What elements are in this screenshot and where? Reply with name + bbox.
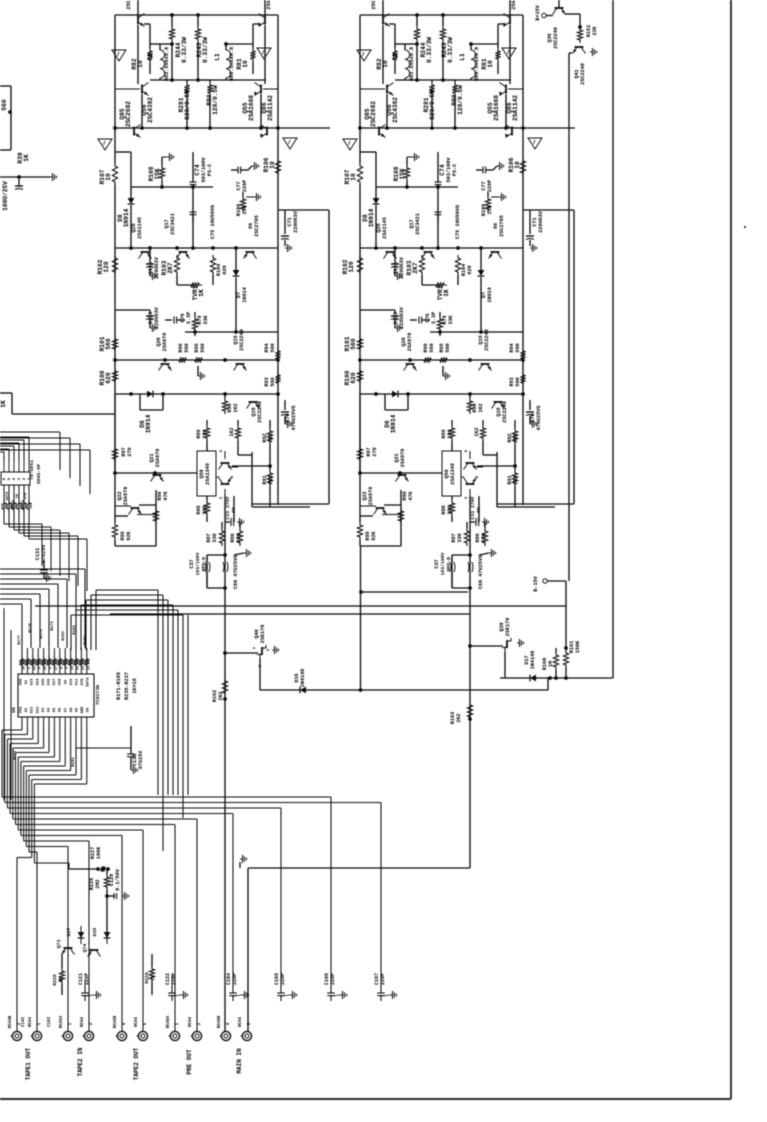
- svg-text:13: 13: [82, 666, 86, 670]
- resistor R161 150K: [564, 646, 568, 650]
- svg-text:C166: C166: [324, 973, 330, 985]
- connector pin leads top: [3, 461, 5, 472]
- input line right channel: [469, 496, 471, 868]
- connector TO-5051-6P: [1, 472, 30, 485]
- svg-text:220P: 220P: [232, 973, 238, 985]
- resistor R228 1K: [61, 954, 63, 968]
- wire supply branch: [361, 591, 468, 593]
- svg-text:R163: R163: [450, 712, 456, 724]
- bus vertical extensions: [162, 795, 164, 851]
- svg-text:B+15V: B+15V: [535, 4, 541, 20]
- svg-text:B-15V: B-15V: [533, 575, 539, 591]
- jack RCA6A: [170, 1031, 179, 1040]
- svg-text:14: 14: [87, 666, 91, 670]
- svg-text:1K: 1K: [150, 975, 156, 981]
- svg-text:R152: R152: [586, 25, 592, 37]
- svg-text:R228: R228: [52, 974, 58, 986]
- svg-text:RCA5A: RCA5A: [60, 1015, 64, 1028]
- svg-text:RCA6B: RCA6B: [218, 1015, 222, 1028]
- svg-text:220P: 220P: [280, 973, 286, 985]
- svg-text:RCA4: RCA4: [81, 1016, 85, 1027]
- page border bottom edge: [0, 1098, 731, 1100]
- resistor R162 2K2: [223, 697, 227, 701]
- jack RCA4: [32, 1031, 41, 1040]
- JFET Q40 2SK170: [223, 651, 227, 655]
- svg-text:D16: D16: [294, 673, 300, 682]
- terminal B+15V: [542, 13, 546, 17]
- right channel amplifier Q84 Q57 Q58 Q87 Q29 Q35 Q32 Q31 Q30 Q33 Q34 Q49 duplicate of left: [342, 0, 575, 590]
- jack RCA5B: [117, 1031, 126, 1040]
- svg-text:2K2: 2K2: [456, 713, 462, 722]
- svg-text:Q36: Q36: [547, 33, 553, 42]
- transistor Q41 2SC2240: [573, 47, 586, 54]
- resistor network R171-R185 above IC: [19, 656, 24, 668]
- svg-text:TAPE2 OUT: TAPE2 OUT: [133, 1047, 140, 1080]
- svg-text:DATA: DATA: [87, 677, 91, 687]
- resistor R229 1K: [151, 954, 153, 966]
- wire stub lower: [0, 392, 12, 394]
- svg-text:100K: 100K: [96, 846, 102, 859]
- svg-text:S22: S22: [36, 706, 40, 714]
- svg-text:2SC2240: 2SC2240: [580, 63, 586, 85]
- wire: [80, 926, 82, 932]
- svg-text:TC9273N: TC9273N: [95, 685, 101, 705]
- jack feed verticals: [16, 858, 18, 1032]
- wire: [75, 726, 77, 748]
- svg-text:220P: 220P: [380, 973, 386, 985]
- ground: [50, 176, 53, 178]
- wire mute gate line: [110, 613, 470, 615]
- jack RCA6B: [221, 1031, 230, 1040]
- svg-text:R183: R183: [62, 631, 66, 641]
- resistor R163 2K2: [468, 717, 472, 721]
- wire: [259, 659, 261, 690]
- svg-text:TAPE2 IN: TAPE2 IN: [77, 1047, 84, 1076]
- diode D16 1N4148: [300, 687, 306, 694]
- svg-text:R178: R178: [29, 623, 33, 633]
- wire mute feed from top: [612, 0, 614, 678]
- svg-text:Q73: Q73: [56, 940, 62, 949]
- svg-text:GND: GND: [81, 706, 85, 714]
- capacitor C121 220P: [84, 986, 86, 993]
- svg-text:22K: 22K: [592, 25, 598, 35]
- svg-text:R181: R181: [72, 757, 76, 767]
- resistor cluster below connector: [1, 500, 6, 512]
- svg-text:2: 2: [28, 667, 32, 669]
- svg-text:S27: S27: [53, 678, 57, 686]
- mute line left channel: [260, 689, 548, 691]
- svg-text:S28: S28: [59, 678, 63, 686]
- jack RCA5A: [63, 1031, 72, 1040]
- IC bottom pin wires: [21, 717, 23, 726]
- svg-text:S24: S24: [36, 678, 40, 686]
- svg-text:S1: S1: [25, 679, 29, 684]
- svg-text:R174: R174: [22, 500, 26, 510]
- node dot: [8, 110, 12, 114]
- svg-text:C128: C128: [109, 874, 115, 886]
- svg-text:D17: D17: [524, 655, 530, 664]
- svg-text:CK: CK: [87, 707, 91, 712]
- svg-text:S3: S3: [42, 707, 46, 712]
- svg-text:1K: 1K: [23, 154, 30, 162]
- svg-text:24: 24: [33, 666, 37, 670]
- svg-text:1K: 1K: [58, 977, 64, 983]
- ground: [240, 858, 243, 860]
- svg-text:0.1/50V: 0.1/50V: [115, 868, 121, 891]
- jack RCA4: [84, 1031, 93, 1040]
- capacitor C122 220P: [171, 986, 173, 993]
- svg-text:1N4148: 1N4148: [530, 651, 536, 670]
- svg-text:RCA4B: RCA4B: [9, 1015, 13, 1028]
- svg-text:1N4148: 1N4148: [300, 669, 306, 688]
- capacitor C167 220P: [380, 986, 382, 993]
- JFET Q39 2SK170: [468, 644, 472, 648]
- svg-text:2K2: 2K2: [218, 691, 224, 700]
- svg-text:1K: 1K: [0, 400, 7, 408]
- svg-text:C122: C122: [165, 973, 171, 985]
- wire right channel rail extension to mute: [360, 546, 362, 690]
- svg-text:C163: C163: [48, 1016, 52, 1027]
- diode D27: [78, 932, 85, 938]
- svg-text:150K: 150K: [575, 640, 581, 653]
- left channel amplifier: [97, 0, 330, 590]
- capacitor C131 47U25V: [43, 560, 45, 570]
- svg-text:VDD: VDD: [20, 678, 24, 686]
- svg-text:RCA4: RCA4: [29, 1016, 33, 1027]
- resistor R226 2M2: [106, 869, 108, 874]
- svg-text:R173: R173: [51, 621, 55, 631]
- bus wires upper left: [0, 431, 60, 433]
- svg-text:R171-R185: R171-R185: [116, 672, 122, 700]
- svg-text:D28: D28: [92, 928, 98, 937]
- ground: [590, 51, 593, 53]
- svg-text:D27: D27: [66, 928, 72, 937]
- svg-text:U6: U6: [11, 707, 17, 713]
- bus wires from right side: [157, 590, 159, 795]
- wire Q41 emitter rail: [569, 52, 572, 54]
- svg-text:S10: S10: [70, 678, 74, 686]
- svg-text:10: 10: [71, 666, 75, 670]
- wire: [565, 13, 580, 15]
- svg-text:R226: R226: [89, 878, 95, 890]
- ground: [272, 649, 275, 651]
- wire mute output node: [500, 677, 613, 679]
- svg-text:C131: C131: [35, 548, 41, 560]
- svg-text:220P: 220P: [330, 973, 336, 985]
- svg-text:1M: 1M: [548, 661, 554, 667]
- svg-text:Q40: Q40: [254, 629, 260, 638]
- svg-text:RCA5B: RCA5B: [114, 1015, 118, 1028]
- svg-text:S21: S21: [31, 706, 35, 714]
- svg-text:R227: R227: [90, 847, 96, 859]
- svg-text:C132: C132: [132, 754, 138, 766]
- svg-text:4: 4: [39, 667, 43, 669]
- wires from connector top: [3, 452, 5, 461]
- svg-text:R162: R162: [212, 690, 218, 702]
- wire stub to off-page left top: [0, 85, 11, 87]
- svg-text:5045-6P: 5045-6P: [36, 464, 42, 484]
- svg-text:R216: R216: [12, 500, 16, 510]
- bus vertical: [187, 615, 189, 795]
- svg-text:RCA4: RCA4: [239, 1016, 243, 1027]
- svg-text:S6: S6: [59, 707, 63, 712]
- wire: [239, 862, 241, 868]
- resistor R227 100K: [96, 867, 100, 871]
- svg-text:R229: R229: [144, 972, 150, 984]
- svg-text:Q41: Q41: [574, 69, 580, 78]
- input line left channel: [224, 496, 226, 1031]
- svg-text:2SK170: 2SK170: [505, 618, 511, 637]
- svg-text:28: 28: [23, 666, 27, 670]
- svg-text:C167: C167: [374, 973, 380, 985]
- svg-text:S11: S11: [76, 678, 80, 686]
- svg-text:STB: STB: [24, 492, 28, 499]
- svg-text:TAPE1 OUT: TAPE1 OUT: [25, 1047, 32, 1080]
- speck: [744, 226, 746, 228]
- svg-text:TO-5051: TO-5051: [29, 460, 35, 480]
- svg-text:DATA: DATA: [6, 491, 10, 500]
- wires caps to jacks: [84, 980, 86, 988]
- svg-text:S9: S9: [64, 679, 68, 684]
- svg-text:S1: S1: [25, 707, 29, 712]
- svg-text:MAIN IN: MAIN IN: [236, 1048, 243, 1074]
- svg-text:RCA4: RCA4: [189, 1016, 193, 1027]
- svg-text:S7: S7: [64, 707, 68, 712]
- svg-text:8: 8: [60, 667, 64, 669]
- jack RCA4: [242, 1031, 251, 1040]
- wire: [547, 580, 566, 582]
- resistor R39: [0, 176, 50, 178]
- svg-text:6: 6: [50, 667, 54, 669]
- bus nest to jacks: [21, 726, 23, 730]
- vertical feeds for caps: [330, 797, 332, 988]
- svg-text:R235-R237: R235-R237: [124, 672, 130, 700]
- svg-text:Q74: Q74: [82, 944, 88, 953]
- transistor Q36 2SC2240: [553, 8, 566, 15]
- resistor R152 22K: [577, 27, 582, 43]
- svg-text:VSS: VSS: [20, 706, 24, 714]
- svg-text:26: 26: [44, 666, 48, 670]
- svg-text:RCA4: RCA4: [135, 1016, 139, 1027]
- svg-text:S25: S25: [42, 678, 46, 686]
- FET Q74: [88, 950, 101, 957]
- diode D17 1N4148: [530, 675, 536, 682]
- svg-text:9: 9: [66, 667, 70, 669]
- wire: [106, 896, 108, 938]
- svg-text:R182: R182: [73, 625, 77, 635]
- svg-text:11: 11: [77, 666, 81, 670]
- svg-text:R175: R175: [40, 629, 44, 639]
- wire: [504, 652, 506, 678]
- svg-text:47U25V: 47U25V: [41, 544, 47, 564]
- svg-text:C164: C164: [226, 973, 232, 985]
- capacitor C164 220P: [232, 986, 234, 993]
- svg-text:Q39: Q39: [499, 622, 505, 631]
- svg-text:C121: C121: [78, 973, 84, 985]
- wire main-in right loop: [248, 867, 470, 869]
- svg-text:47U25V: 47U25V: [138, 750, 144, 770]
- svg-text:27: 27: [55, 666, 59, 670]
- capacitor C166 220P: [330, 986, 332, 993]
- svg-text:2SK170: 2SK170: [260, 625, 266, 644]
- svg-text:2SC2240: 2SC2240: [553, 27, 559, 49]
- wire: [546, 15, 553, 17]
- svg-text:RCA6A: RCA6A: [167, 1015, 171, 1028]
- resistor R160 1M: [555, 648, 557, 652]
- svg-text:560: 560: [1, 99, 8, 110]
- connector pin wires: [3, 485, 5, 500]
- capacitor C165 220P: [280, 986, 282, 993]
- capacitor C128 0.1/50V: [106, 890, 108, 895]
- diode D28: [104, 932, 111, 938]
- bus verticals passing IC: [3, 608, 5, 800]
- jack RCA4B: [12, 1031, 21, 1040]
- jack RCA4: [192, 1031, 201, 1040]
- capacitor C132 47U25V: [130, 726, 132, 754]
- svg-text:PRE OUT: PRE OUT: [186, 1049, 193, 1075]
- svg-text:C142: C142: [22, 1016, 26, 1027]
- svg-text:R160: R160: [542, 658, 548, 670]
- ground: [517, 642, 520, 644]
- svg-text:C165: C165: [274, 973, 280, 985]
- FET Q73: [62, 948, 75, 955]
- svg-text:R161: R161: [569, 641, 575, 653]
- svg-text:S8: S8: [70, 707, 74, 712]
- svg-text:2M2: 2M2: [95, 879, 101, 888]
- svg-text:100U/25V: 100U/25V: [2, 181, 9, 211]
- svg-text:R177: R177: [18, 635, 22, 645]
- svg-text:S4: S4: [48, 707, 52, 712]
- svg-text:S23: S23: [31, 678, 35, 686]
- page border right edge: [730, 0, 732, 1099]
- jack RCA4: [138, 1031, 147, 1040]
- svg-text:1K×18: 1K×18: [132, 678, 138, 694]
- svg-text:S26: S26: [48, 678, 52, 686]
- wire -15V feed: [35, 605, 566, 607]
- bus wires to switch IC: [0, 603, 22, 605]
- capacitor 100U/25V: [15, 185, 23, 187]
- svg-text:R184: R184: [84, 635, 88, 645]
- switch IC U6 TC9273N: [18, 674, 94, 717]
- svg-text:S5: S5: [53, 707, 57, 712]
- svg-text:S9: S9: [76, 707, 80, 712]
- terminal B-15V: [543, 579, 547, 583]
- svg-text:STB: STB: [81, 678, 85, 686]
